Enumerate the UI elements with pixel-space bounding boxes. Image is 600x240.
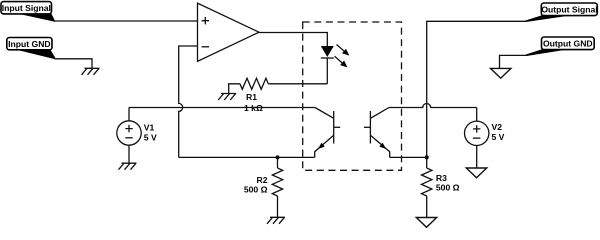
voltage source V2: [465, 108, 489, 169]
svg-text:500 Ω: 500 Ω: [244, 184, 268, 194]
svg-text:5 V: 5 V: [492, 132, 505, 142]
LED light arrow 1: [337, 45, 350, 56]
svg-text:Output Signal: Output Signal: [541, 4, 597, 14]
ground (hatched) V1: [119, 163, 137, 170]
resistor R3: [422, 157, 432, 217]
wire right emitter to output node: [390, 156, 427, 158]
wire feedback bottom rail: [179, 156, 315, 158]
ground (triangle) Output GND: [491, 68, 511, 78]
LED light arrow 2: [335, 56, 348, 67]
voltage source V1: [117, 108, 141, 164]
ground (hatched) input GND: [82, 68, 100, 75]
ground (hatched) R1: [218, 94, 236, 101]
svg-text:R1: R1: [246, 92, 257, 102]
phototransistor Q2 (right, output): [364, 108, 390, 158]
svg-text:500 Ω: 500 Ω: [436, 183, 460, 193]
wire Output GND to ground: [500, 55, 527, 68]
flag Input Signal: [1, 2, 55, 22]
svg-text:5 V: 5 V: [144, 133, 157, 143]
ground (triangle) R3: [416, 218, 436, 228]
node junction R2: [276, 155, 280, 159]
wire Output Signal vertical: [427, 21, 526, 157]
flag Input GND: [7, 38, 55, 60]
wire +5V rail right (Q2 collector to V2, hops over output wire): [389, 104, 477, 108]
svg-text:V2: V2: [492, 122, 503, 132]
wire op-amp inverting input to feedback node (hops over +5V rail): [179, 46, 198, 157]
svg-text:Input GND: Input GND: [8, 39, 50, 49]
LED D1 (optocoupler emitter): [321, 46, 334, 84]
flag Output Signal: [526, 3, 598, 22]
resistor R2: [272, 157, 282, 217]
flag Output GND: [526, 37, 594, 56]
svg-text:R3: R3: [436, 173, 447, 183]
optocoupler dashed box: [303, 22, 402, 170]
op-amp U1: [198, 3, 260, 61]
ground (hatched) R2: [267, 217, 285, 224]
wire +5V rail left (V1 to phototransistor Q1 collector): [129, 107, 315, 109]
node junction R3/output: [425, 155, 429, 159]
svg-text:V1: V1: [144, 123, 155, 133]
svg-text:Input Signal: Input Signal: [2, 3, 51, 13]
svg-text:Output GND: Output GND: [543, 39, 593, 49]
wire Input GND to ground: [55, 59, 93, 69]
wire Input Signal to op-amp +: [54, 20, 198, 22]
phototransistor Q1 (left, feedback): [315, 108, 341, 158]
svg-text:1 kΩ: 1 kΩ: [244, 103, 263, 113]
wire op-amp output to LED anode: [259, 33, 327, 47]
resistor R1: [229, 78, 328, 93]
ground (triangle) V2: [466, 168, 486, 178]
